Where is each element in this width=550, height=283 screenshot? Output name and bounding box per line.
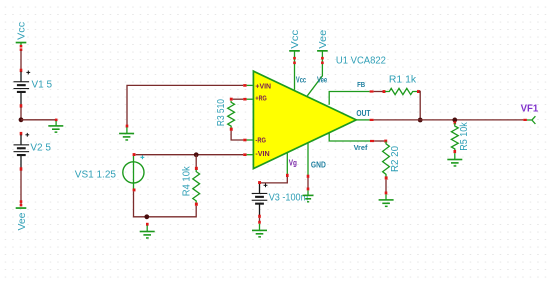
wire OUT net [356,119,369,121]
junction [194,152,199,157]
wire Vref net [329,132,370,141]
svg-text:Vcc: Vcc [290,30,301,49]
svg-text:V1 5: V1 5 [32,80,53,91]
wire [20,107,22,120]
wire [21,119,55,121]
svg-text:Vee: Vee [17,212,28,230]
junction [452,118,457,123]
wire +VIN net [127,85,243,125]
battery V1 [14,69,31,108]
node Vcc (left supply terminal) [16,22,28,51]
wire [374,119,524,121]
wire [261,177,287,183]
svg-text:-VIN: -VIN [255,151,269,158]
ground [48,119,63,133]
resistor R5 [451,121,458,159]
svg-text:VS1 1.25: VS1 1.25 [75,170,117,181]
op-amp U1 [253,71,356,169]
ground [447,159,462,167]
svg-text:GND: GND [311,160,326,169]
node VF1 (output terminal) [523,116,535,124]
resistor R4 [193,155,200,206]
pin [243,153,246,156]
wire FB net [329,92,369,105]
junction [19,117,24,122]
pin GND [307,143,310,178]
pin [370,140,374,142]
wire [374,91,383,93]
node Vee (U1 supply terminal) [307,29,329,95]
ground [379,192,394,208]
svg-text:R2 20: R2 20 [390,146,401,172]
node Vcc (U1 supply terminal) [289,30,301,90]
resistor R1 [383,88,421,94]
pin [243,84,246,87]
svg-text:+VIN: +VIN [255,84,271,91]
wire [20,51,22,71]
svg-text:U1 VCA822: U1 VCA822 [336,55,386,66]
svg-text:+RG: +RG [255,96,267,103]
svg-text:V2 5: V2 5 [30,143,51,154]
svg-text:VF1: VF1 [521,102,539,114]
wire -VIN net [136,154,244,156]
svg-text:Vee: Vee [317,75,328,84]
resistor R3 [228,98,254,142]
svg-text:R1 1k: R1 1k [389,75,417,86]
svg-text:Vcc: Vcc [296,75,307,84]
wire [374,140,384,142]
voltage source VS1 [123,153,145,191]
svg-text:R4 10k: R4 10k [182,165,193,196]
junction [144,214,149,219]
resistor R2 [383,140,390,192]
wire [259,218,261,222]
pin Vg [286,153,289,177]
svg-text:Vee: Vee [318,29,329,48]
node Vee (left supply terminal) [16,200,28,230]
svg-text:Vref: Vref [354,143,368,152]
svg-text:FB: FB [357,80,366,89]
ground [119,125,134,141]
svg-text:Vcc: Vcc [17,22,28,40]
ground [140,223,155,239]
wire [419,92,420,120]
ground [252,221,267,238]
junction [418,118,423,123]
ground [303,188,314,203]
svg-text:V3 -100m: V3 -100m [269,192,309,203]
svg-text:R5 10k: R5 10k [459,121,470,150]
battery V3 [252,181,268,218]
svg-text:Vg: Vg [289,158,297,167]
svg-text:R3 510: R3 510 [216,99,227,126]
wire [134,191,197,216]
wire [20,171,22,205]
wire [307,178,309,188]
pin [370,119,374,121]
svg-text:-RG: -RG [255,137,266,144]
svg-text:OUT: OUT [356,109,370,118]
battery V2 [14,132,30,171]
pin [370,90,374,92]
